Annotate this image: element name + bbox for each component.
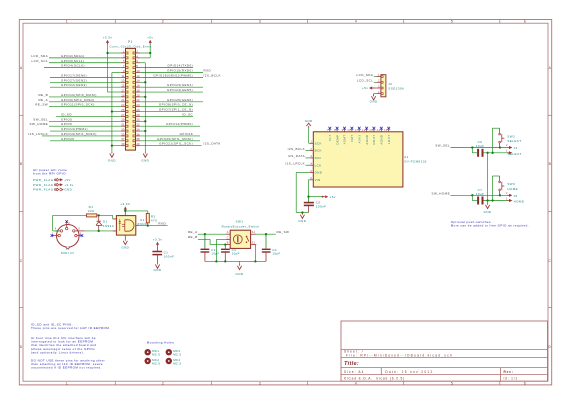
rotary encoder SW1 pin S1 stub — [251, 233, 257, 235]
svg-text:M2.5: M2.5 — [173, 353, 181, 357]
svg-text:3: 3 — [259, 20, 261, 24]
svg-text:PWR_FLAG: PWR_FLAG — [33, 188, 54, 192]
svg-text:Mounting Holes: Mounting Holes — [147, 341, 174, 345]
wire P1 pin 15 (GPIO22(GEN3)) — [50, 86, 121, 88]
power +3.3V above U1 — [124, 206, 127, 209]
svg-text:33: 33 — [121, 127, 125, 131]
svg-text:GPIO22(GEN3): GPIO22(GEN3) — [61, 83, 87, 87]
svg-text:GPIO13(PWM1): GPIO13(PWM1) — [61, 127, 88, 131]
junction U1 vcc — [124, 210, 126, 212]
rotary encoder SW1 pin S2 stub — [251, 244, 257, 246]
svg-text:HOME: HOME — [514, 200, 525, 204]
svg-text:GND: GND — [298, 219, 306, 223]
svg-text:5: 5 — [451, 20, 453, 24]
opto U1 detector D-shape — [125, 220, 134, 231]
mounting hole MK4 — [166, 358, 172, 364]
svg-text:More can be added to free GPIO: More can be added to free GPIO as requir… — [451, 223, 529, 227]
svg-text:SELECT: SELECT — [508, 152, 522, 156]
svg-text:GPIO27(GEN2): GPIO27(GEN2) — [61, 78, 87, 82]
mounting hole MK3 — [166, 349, 172, 355]
svg-text:37: 37 — [121, 137, 125, 141]
svg-text:27: 27 — [121, 113, 125, 117]
svg-text:35: 35 — [121, 132, 125, 136]
opto U1 output pin stub — [136, 225, 139, 227]
wire P1 pin 12 (GPIO18(GEN1)(PWM0)) — [140, 76, 203, 78]
svg-text:LCD_SDA: LCD_SDA — [357, 73, 374, 77]
wire P1 pin 26 (GPIO7(SPI1_CE_N)) — [140, 111, 193, 113]
svg-text:11: 11 — [121, 74, 124, 78]
svg-text:1: 1 — [310, 140, 312, 144]
wire P1 pin 21 (GPIO9(SPI0_MISO)) — [49, 101, 121, 103]
connector J1 MIDI IN DIN-5 circle — [57, 225, 80, 248]
svg-text:from the RPi GPIO: from the RPi GPIO — [33, 172, 66, 176]
svg-text:XSMT: XSMT — [343, 135, 347, 145]
svg-text:4: 4 — [355, 381, 357, 385]
svg-text:GPIO15(RXD0): GPIO15(RXD0) — [167, 69, 193, 73]
title block outline — [341, 321, 548, 381]
svg-text:GPIO19(SPI1_MISO): GPIO19(SPI1_MISO) — [61, 132, 97, 136]
rotary encoder SW1 switch contacts — [246, 236, 248, 238]
wire LCD_SDA J2 pin1 — [374, 76, 377, 78]
svg-text:Conn_02x20_Odd_Even: Conn_02x20_Odd_Even — [109, 45, 151, 49]
svg-text:SW_SEL: SW_SEL — [435, 144, 450, 148]
connector J1 pin holes — [66, 227, 68, 229]
power +5v at A1 — [322, 196, 324, 198]
wire SW1 S1 to RE_SW — [256, 233, 276, 235]
svg-text:LCK: LCK — [315, 163, 322, 167]
svg-text:RE_SW: RE_SW — [35, 103, 48, 107]
svg-text:28: 28 — [136, 113, 140, 117]
wire P1 pin 19 (GPIO10(SPI0_MOSI)) — [49, 96, 121, 98]
junction switch bottom SEL — [499, 146, 501, 148]
wire J1 pin4 to R1 — [52, 215, 54, 231]
wire I2S_LRCLK to LCK — [306, 164, 310, 166]
DAC A1 top pin stubs with no-connect flags and names — [329, 128, 331, 131]
frame row ticks and letters — [19, 114, 23, 116]
svg-text:1: 1 — [66, 20, 68, 24]
wire P1 pin 5 (GPIO3(SCL1)) — [49, 62, 121, 64]
svg-text:KiCad E.D.A. kicad (6.0.5): KiCad E.D.A. kicad (6.0.5) — [344, 377, 405, 381]
wire P1 pin 8 (GPIO14(TXD0)) — [140, 67, 193, 69]
wire SW_SEL main — [451, 147, 508, 149]
svg-text:C: C — [227, 236, 229, 239]
svg-text:4: 4 — [355, 20, 357, 24]
svg-text:AGND: AGND — [380, 135, 384, 145]
connector P1 Conn_02x20_Odd_Even body — [126, 48, 136, 150]
wire P1 pin 23 (GPIO11(SPI0_SCK)) — [49, 106, 121, 108]
svg-text:C: C — [20, 259, 23, 263]
wire P1 pin 35 (GPIO19(SPI1_MISO)) — [42, 135, 121, 137]
wire GND to SCK pin1 — [308, 128, 310, 143]
svg-text:I2S_LRCLK: I2S_LRCLK — [285, 161, 305, 165]
svg-text:DEMP: DEMP — [335, 135, 339, 145]
svg-text:16: 16 — [136, 84, 140, 88]
svg-text:RE_SW: RE_SW — [277, 230, 290, 234]
svg-text:B: B — [227, 242, 229, 245]
svg-text:470: 470 — [151, 218, 157, 222]
junction switch bottom HOME — [499, 194, 501, 196]
wire gnd row HOME — [483, 200, 507, 202]
svg-text:19: 19 — [121, 93, 125, 97]
opto U1 internal LED symbol — [119, 219, 121, 221]
svg-text:ID_SD: ID_SD — [61, 112, 72, 116]
svg-text:GND: GND — [64, 188, 72, 192]
svg-text:Date: 15 nov 2012: Date: 15 nov 2012 — [385, 370, 433, 374]
svg-text:36: 36 — [136, 132, 140, 136]
svg-text:220: 220 — [88, 209, 94, 213]
wire SW1 S2 down to ground rail — [254, 244, 257, 246]
svg-text:RXD: RXD — [158, 222, 166, 226]
switch SW3 HOME symbol — [491, 176, 493, 201]
capacitor C3 — [224, 245, 226, 249]
connector J1 pin 5 stub — [75, 230, 84, 232]
svg-text:M2.5: M2.5 — [173, 362, 181, 366]
svg-text:I2S_LRCLK: I2S_LRCLK — [28, 132, 48, 136]
wire cap drop HOME — [471, 195, 473, 200]
wire P1 pin 27 (ID_SD) — [56, 115, 121, 117]
svg-text:32: 32 — [136, 123, 140, 127]
ground under encoder — [239, 261, 241, 263]
junction GND pin 30 — [144, 120, 146, 122]
svg-text:6: 6 — [310, 176, 312, 180]
wire P1 pin 40 (GPIO21(SPI1_SCK)) — [140, 145, 201, 147]
wire R2 top — [147, 211, 149, 214]
svg-text:GND: GND — [305, 119, 313, 123]
svg-text:B: B — [20, 162, 23, 166]
svg-text:GND: GND — [121, 246, 129, 250]
svg-text:A3V3: A3V3 — [357, 135, 361, 144]
resistor R2 body — [146, 213, 149, 222]
svg-text:GPIO26: GPIO26 — [61, 137, 74, 141]
wire RE_A to pin A — [198, 233, 226, 235]
DAC A1 left pin stubs, numbers and names — [310, 142, 314, 144]
connector J1 pin 2 stub with no-connect — [66, 222, 68, 228]
svg-text:PWR_FLAG: PWR_FLAG — [33, 183, 54, 187]
svg-text:GPIO14(TXD0): GPIO14(TXD0) — [167, 64, 193, 68]
capacitor C4 — [265, 234, 267, 249]
junction RE_A / C2 — [204, 233, 206, 235]
svg-text:1N914: 1N914 — [103, 224, 114, 228]
svg-text:RE_B: RE_B — [188, 235, 198, 239]
wire P1 pin 31 (GPIO6) — [49, 125, 121, 127]
svg-text:(and optionally, Linux drivers: (and optionally, Linux drivers). — [31, 350, 84, 354]
svg-text:I2S_DATA: I2S_DATA — [288, 154, 305, 158]
wire P1 pin 10 (GPIO15(RXD0)) — [140, 72, 203, 74]
svg-text:40: 40 — [136, 142, 140, 146]
wire gnd drop between SW2 and SW3 sections — [487, 153, 489, 201]
svg-text:4: 4 — [310, 162, 312, 166]
svg-text:DIN: DIN — [315, 156, 321, 160]
connector P1 pin stubs and pin numbers — [121, 52, 126, 54]
svg-text:GND: GND — [484, 210, 492, 214]
power +5v at P1 — [149, 40, 152, 43]
svg-text:10pF: 10pF — [232, 252, 240, 256]
wire GND rail left of P1 (pins 9,25,39) — [111, 73, 113, 152]
connector J5 pin 2 — [507, 194, 509, 196]
svg-text:4: 4 — [378, 90, 380, 94]
svg-text:SW_HOME: SW_HOME — [432, 191, 450, 195]
svg-text:GPIO20(SPI1_MOSI): GPIO20(SPI1_MOSI) — [157, 137, 193, 141]
junction VIN/C5 — [307, 196, 309, 198]
junction ground node A1 — [301, 211, 303, 213]
svg-text:SW_HOME: SW_HOME — [30, 122, 48, 126]
rotary encoder SW1 body — [230, 230, 250, 248]
svg-text:LCD_SDA: LCD_SDA — [31, 54, 48, 58]
wire pin C to ground rail — [216, 238, 225, 240]
svg-text:5: 5 — [310, 169, 312, 173]
svg-text:13: 13 — [121, 79, 125, 83]
wire A1 VIN to +5v and C5 — [309, 179, 310, 181]
ground under P1 right — [144, 151, 146, 153]
connector J2 pin stubs — [376, 76, 381, 78]
svg-text:I2S_BCLK: I2S_BCLK — [288, 147, 305, 151]
wire J1 pin5 to opto cathode — [85, 230, 117, 232]
junction R2/output — [147, 224, 149, 226]
svg-text:GPIO16: GPIO16 — [180, 132, 193, 136]
svg-text:LOUT: LOUT — [387, 135, 391, 144]
svg-text:7: 7 — [327, 130, 329, 132]
svg-text:1: 1 — [506, 197, 508, 200]
svg-text:RXD: RXD — [204, 69, 212, 73]
svg-text:GPIO10(SPI0_MOSI): GPIO10(SPI0_MOSI) — [61, 93, 97, 97]
svg-text:ID_SC: ID_SC — [182, 112, 193, 116]
svg-text:1: 1 — [52, 232, 54, 235]
power +3.3v at P1 — [106, 40, 109, 43]
svg-text:3: 3 — [310, 154, 312, 158]
svg-text:These pins are reserved for HA: These pins are reserved for HAT ID EEPRO… — [31, 326, 110, 330]
svg-text:GPIO2(SDA1): GPIO2(SDA1) — [61, 54, 85, 58]
mounting hole MK1 — [145, 349, 151, 355]
opto U1 gnd pin stub — [124, 235, 126, 239]
connector J1 pin 4 stub — [55, 230, 60, 232]
switch SW2 SELECT symbol — [491, 128, 493, 153]
svg-text:I2S_DATA: I2S_DATA — [204, 142, 221, 146]
svg-text:34: 34 — [136, 127, 140, 131]
wire P1 pin 3 (GPIO2(SDA1)) — [49, 57, 121, 59]
junction rail / C3 — [224, 260, 226, 262]
svg-text:SW3: SW3 — [507, 182, 515, 186]
wire SW_HOME main — [451, 194, 508, 196]
connector J1 pin 3 stub with no-connect — [77, 235, 82, 237]
mounting hole MK2 — [145, 358, 151, 364]
svg-text:3: 3 — [80, 232, 82, 235]
svg-text:Size: A4: Size: A4 — [344, 370, 365, 374]
svg-text:A: A — [227, 231, 229, 234]
wire I2S_DATA to DIN — [306, 157, 310, 159]
wire P1 pin 29 (GPIO5) — [49, 120, 121, 122]
wire P1 pin 16 (GPIO23(GEN4)) — [140, 86, 203, 88]
opto-isolator U1 6N138 body — [116, 216, 135, 236]
svg-text:ROUT: ROUT — [372, 135, 376, 145]
ground under C1 — [157, 262, 159, 264]
svg-text:A: A — [549, 66, 552, 70]
svg-text:6: 6 — [524, 381, 526, 385]
power +3.3v at C1 — [156, 242, 159, 245]
connector J1 notch — [66, 247, 70, 249]
ground under U1 — [124, 239, 126, 241]
wire P1 pin 11 (GPIO17(GEN0)) — [50, 76, 121, 78]
svg-text:SW2: SW2 — [507, 134, 515, 138]
svg-text:GPIO11(SPI0_SCK): GPIO11(SPI0_SCK) — [61, 103, 95, 107]
svg-text:12: 12 — [136, 74, 140, 78]
svg-text:GND: GND — [154, 268, 162, 272]
rotary encoder SW1 shaft symbol — [233, 235, 242, 244]
svg-text:15: 15 — [384, 130, 388, 132]
svg-text:31: 31 — [121, 123, 125, 127]
resistor R1 body — [87, 214, 97, 217]
wire RE_B to pin B with jog — [198, 238, 210, 240]
junction GND pin39 — [111, 145, 113, 147]
svg-text:2: 2 — [162, 20, 164, 24]
svg-text:VIN: VIN — [315, 178, 321, 182]
svg-text:13: 13 — [369, 130, 373, 132]
svg-text:D: D — [20, 345, 23, 349]
svg-text:BCK: BCK — [315, 149, 322, 153]
svg-text:20: 20 — [136, 93, 140, 97]
wire +3.3v rail to pins 1 and 17 — [107, 44, 109, 92]
svg-text:25: 25 — [121, 108, 125, 112]
svg-text:23: 23 — [121, 103, 125, 107]
svg-text:GPIO12(PWM0): GPIO12(PWM0) — [166, 122, 193, 126]
svg-text:SCK: SCK — [315, 141, 322, 145]
svg-text:15: 15 — [121, 84, 125, 88]
DAC module A1 GY-PCM5102 body — [313, 132, 403, 187]
capacitor C SEL — [477, 149, 479, 157]
svg-text:3: 3 — [259, 381, 261, 385]
svg-text:Rev:: Rev: — [504, 370, 514, 374]
wire P1 pin 13 (GPIO27(GEN2)) — [50, 81, 121, 83]
svg-text:MIDI IN: MIDI IN — [61, 251, 74, 255]
wire J2 pin4 to ground — [374, 93, 377, 95]
wire +5v rail to pins 2 and 4 — [149, 44, 151, 58]
connector J2 SSD1306 body — [381, 75, 386, 97]
svg-text:J4: J4 — [514, 146, 518, 150]
wire P1 pin 18 (GPIO24(GEN5)) — [140, 91, 203, 93]
svg-text:10: 10 — [136, 69, 140, 73]
wire P1 pin 7 (GPIO4(GCLK)) — [44, 67, 121, 69]
junction gnd drop SEL — [486, 152, 488, 154]
junction R1/D1 top — [98, 214, 100, 216]
svg-text:J5: J5 — [514, 194, 518, 198]
svg-text:GND: GND — [370, 100, 378, 104]
svg-text:18: 18 — [136, 88, 140, 92]
svg-text:GPIO8(SPI0_CE_N): GPIO8(SPI0_CE_N) — [159, 103, 193, 107]
svg-text:S2: S2 — [252, 242, 256, 245]
junction C cap top SEL — [471, 146, 473, 148]
svg-text:GPIO24(GEN5): GPIO24(GEN5) — [167, 88, 193, 92]
junction switch loop HOME — [491, 199, 493, 201]
junction GND pin 34 — [144, 130, 146, 132]
svg-text:+3.3v: +3.3v — [64, 183, 73, 187]
svg-text:+5v: +5v — [362, 86, 368, 90]
ground under P1 left — [111, 151, 113, 153]
svg-text:9: 9 — [342, 130, 344, 132]
svg-text:30: 30 — [136, 118, 140, 122]
frame column ticks and numbers — [114, 20, 116, 24]
svg-text:12: 12 — [362, 130, 366, 132]
svg-text:10uF: 10uF — [476, 144, 485, 148]
svg-text:26: 26 — [136, 108, 140, 112]
svg-text:I2S_BCLK: I2S_BCLK — [204, 73, 221, 77]
ground under switch section — [487, 201, 489, 203]
svg-text:GPIO18(GEN1)(PWM0): GPIO18(GEN1)(PWM0) — [153, 73, 193, 77]
svg-text:GPIO5: GPIO5 — [61, 117, 72, 121]
svg-text:RE_B: RE_B — [38, 93, 48, 97]
svg-text:unconnected if ID EEPROM not r: unconnected if ID EEPROM not required. — [31, 366, 102, 370]
svg-text:10: 10 — [347, 130, 351, 132]
svg-text:+5v: +5v — [330, 195, 336, 199]
svg-text:2: 2 — [162, 381, 164, 385]
svg-text:+3.3v: +3.3v — [153, 237, 163, 241]
svg-text:PWR_FLAG: PWR_FLAG — [33, 178, 54, 182]
rotary encoder SW1 pin A stub — [226, 233, 231, 235]
svg-text:A: A — [20, 66, 23, 70]
svg-text:GND: GND — [141, 158, 149, 162]
svg-text:100nF: 100nF — [164, 255, 175, 259]
capacitor C2 — [204, 234, 206, 249]
capacitor C1 100nF — [157, 246, 159, 251]
wire cap drop SEL — [471, 148, 473, 153]
junction rail / S2 drop — [254, 260, 256, 262]
svg-text:1: 1 — [66, 381, 68, 385]
opto U1 cathode pin stub — [113, 230, 117, 232]
capacitor C HOME — [477, 197, 479, 205]
svg-text:10uF: 10uF — [476, 192, 485, 196]
junction GND pin 20 — [144, 96, 146, 98]
svg-text:GND: GND — [108, 158, 116, 162]
svg-text:+3.3v: +3.3v — [103, 36, 113, 40]
wire R1 to opto anode — [97, 214, 113, 216]
junction RE_B / C3 — [224, 243, 226, 245]
svg-text:S1: S1 — [252, 231, 256, 234]
opto U1 vcc pin stub — [124, 211, 126, 216]
svg-text:RE_A: RE_A — [38, 98, 48, 102]
junction GND pin25 — [111, 110, 113, 112]
junction D1 bottom — [98, 230, 100, 232]
wire P1 pin 28 (ID_SC) — [140, 115, 193, 117]
svg-text:C: C — [548, 259, 551, 263]
svg-text:2: 2 — [68, 222, 70, 225]
svg-text:21: 21 — [121, 98, 125, 102]
wire P1 pin 36 (GPIO16) — [140, 135, 200, 137]
svg-text:GPIO17(GEN0): GPIO17(GEN0) — [61, 73, 87, 77]
junction +5v pin2 — [149, 52, 151, 54]
wire P1 pin 38 (GPIO20(SPI1_MOSI)) — [140, 140, 200, 142]
svg-text:FLT: FLT — [328, 135, 332, 141]
svg-text:LCD_SCL: LCD_SCL — [357, 79, 373, 83]
junction gnd drop HOME — [486, 199, 488, 201]
svg-text:1: 1 — [378, 73, 380, 77]
rotary encoder SW1 pin C stub — [226, 238, 231, 240]
svg-text:24: 24 — [136, 103, 140, 107]
connector J4 pin 2 — [507, 147, 509, 149]
svg-text:10pF: 10pF — [211, 252, 219, 256]
svg-text:5: 5 — [451, 381, 453, 385]
svg-text:M2.5: M2.5 — [152, 362, 160, 366]
junction switch loop SEL — [491, 152, 493, 154]
connector J5 pin 1 — [507, 200, 509, 202]
svg-text:6: 6 — [524, 20, 526, 24]
wire encoder ground rail — [205, 260, 266, 262]
svg-text:11: 11 — [355, 130, 359, 132]
svg-text:4: 4 — [55, 227, 57, 230]
wire GND rail right of P1 (pins 6,14,20,30,34) — [144, 63, 146, 152]
connector J4 pin 1 — [507, 152, 509, 154]
svg-text:FMT: FMT — [350, 135, 354, 142]
svg-text:File: RPi--MiniDexed--IOBoard.: File: RPi--MiniDexed--IOBoard.kicad_sch — [346, 354, 453, 358]
svg-text:+5V: +5V — [64, 178, 70, 182]
wire P1 pin 32 (GPIO12(PWM0)) — [140, 125, 200, 127]
